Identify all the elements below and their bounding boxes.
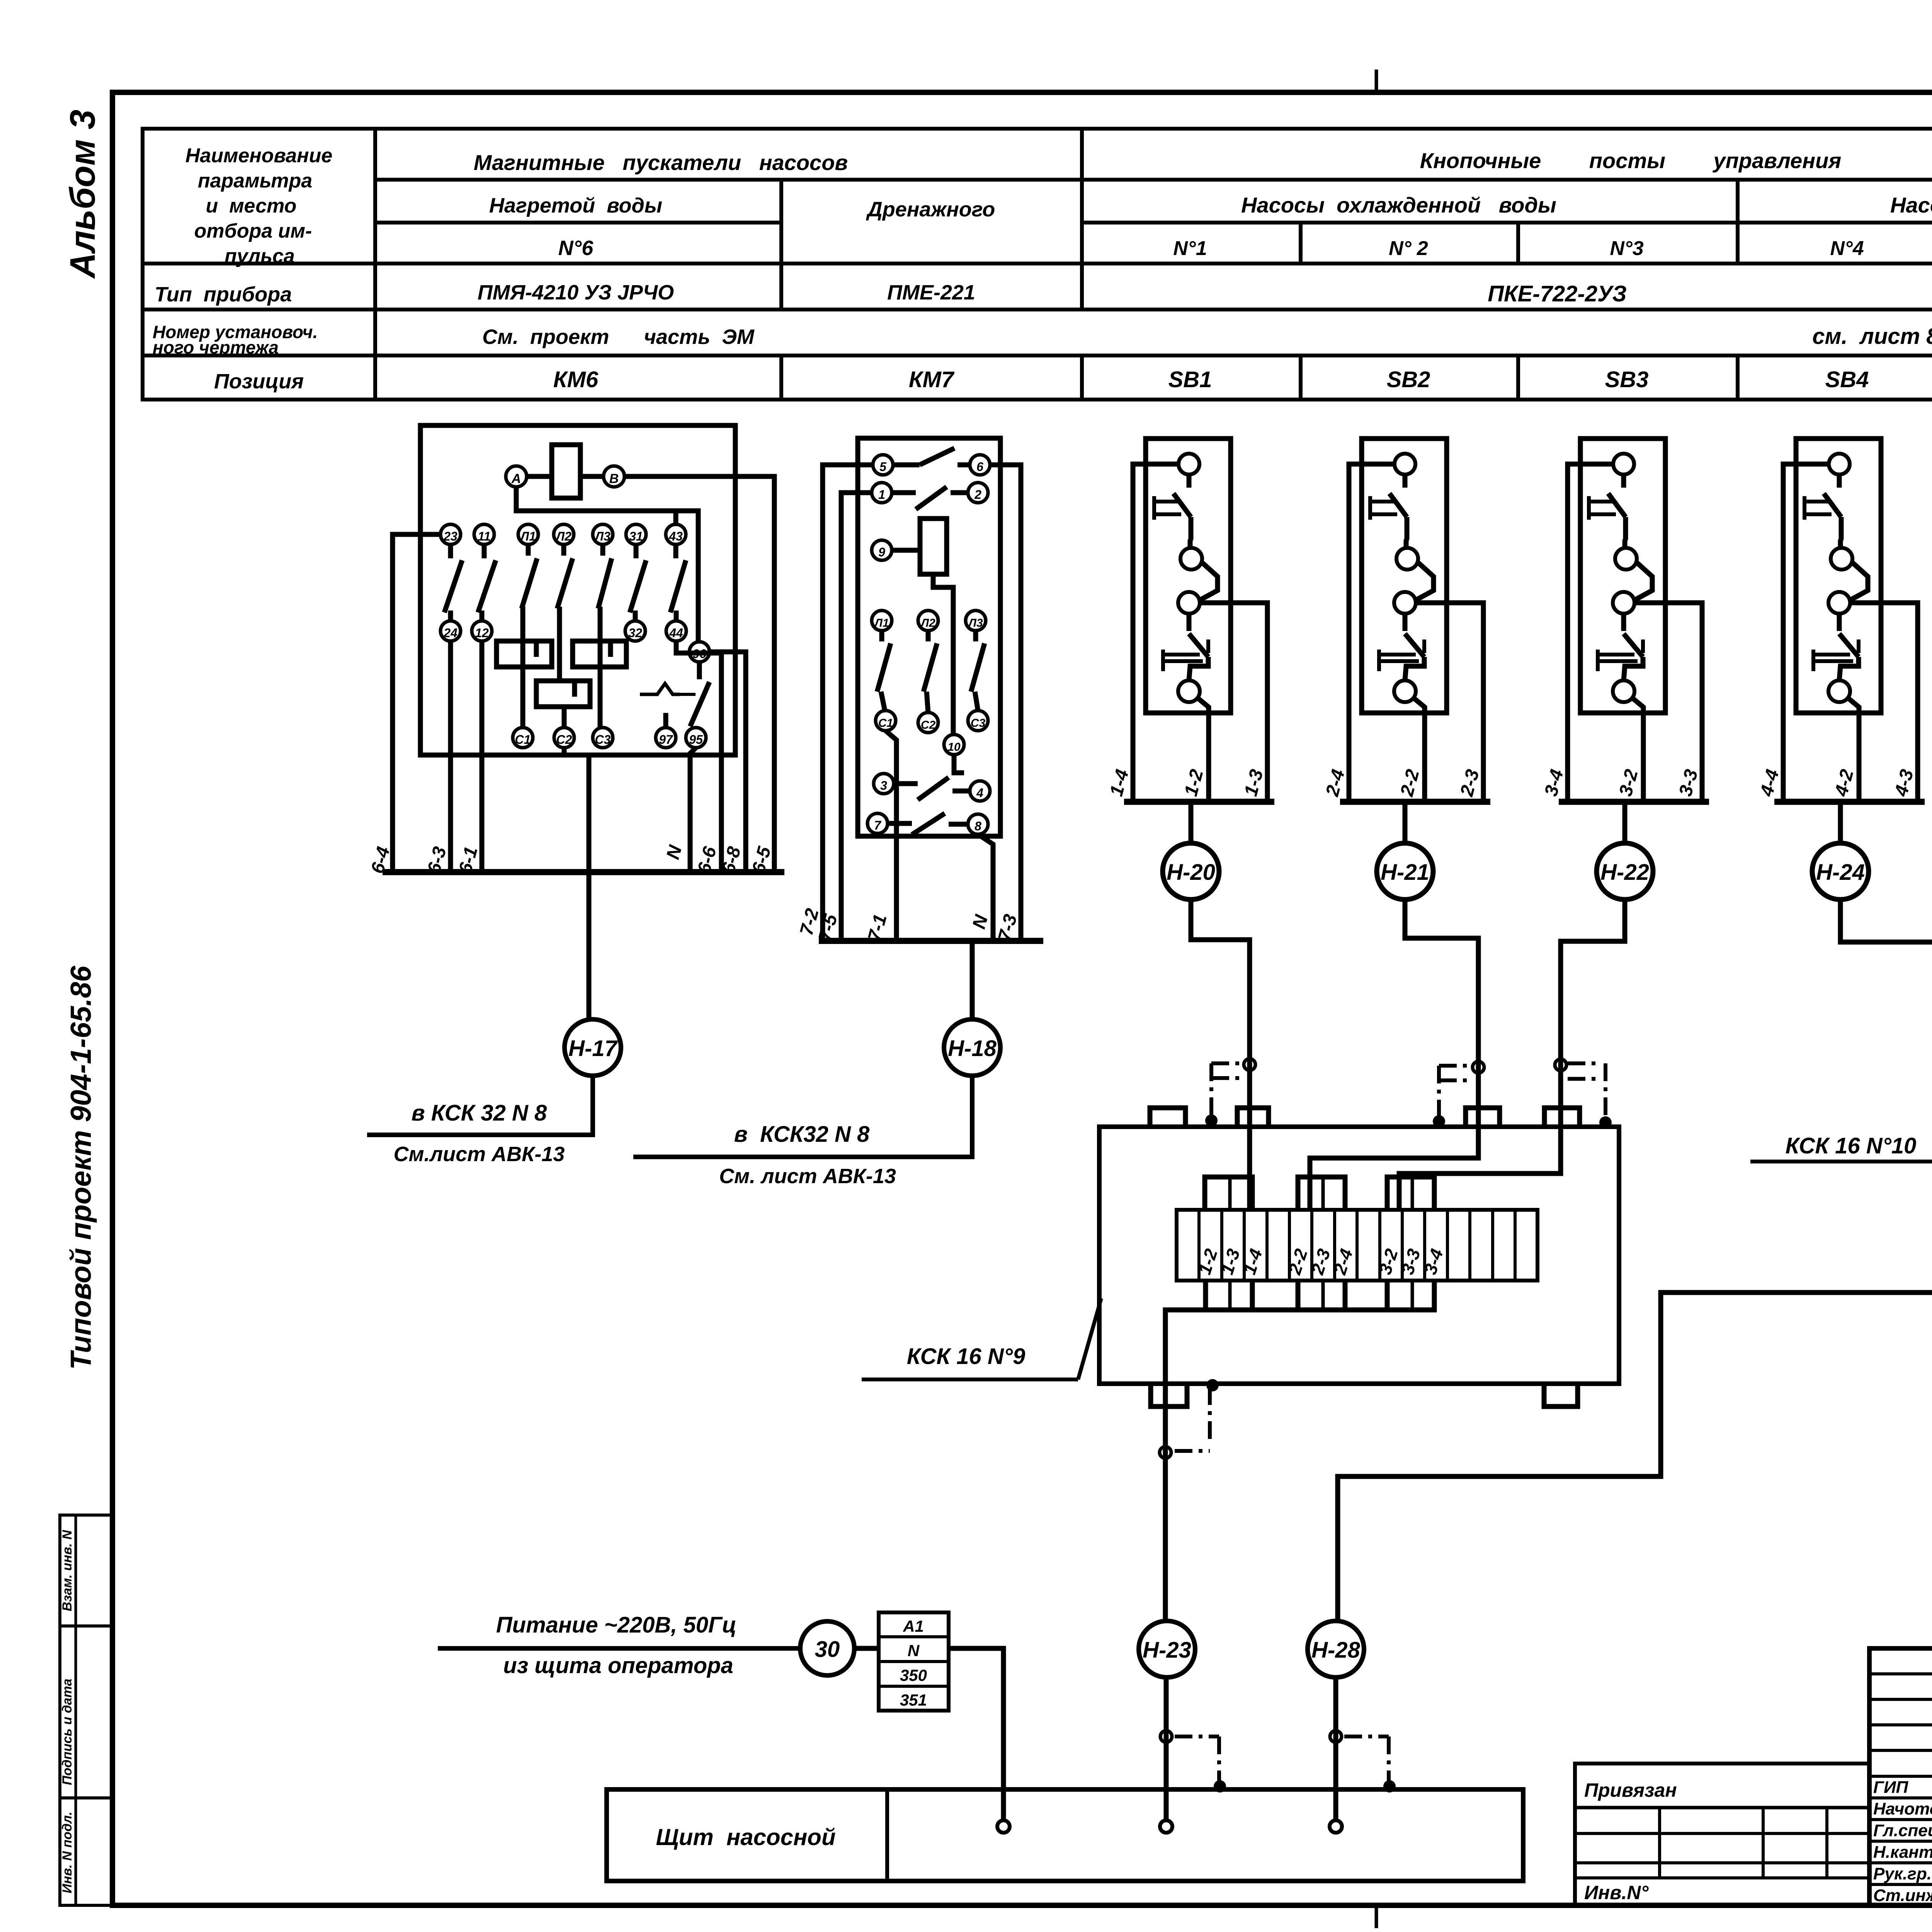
svg-text:Подпись и дата: Подпись и дата — [60, 1679, 75, 1785]
SB1 top terminal — [1179, 454, 1199, 474]
impulse lamp Н-24 — [1838, 802, 1843, 843]
SB2 link wire — [1417, 562, 1434, 600]
KM6 down wire 24 — [448, 641, 453, 872]
impulse lamp H-18 — [944, 1019, 1000, 1076]
KSK16 N9 collector wire — [1165, 1310, 1435, 1384]
KM6 down wire 12 — [480, 641, 485, 872]
KM7 terminal 10 — [944, 735, 964, 755]
svg-text:350: 350 — [900, 1666, 927, 1684]
SB3 middle terminal lower — [1613, 592, 1634, 614]
power terminal box A1 N 350 351 — [879, 1612, 949, 1711]
svg-text:ГИП: ГИП — [1873, 1778, 1909, 1797]
H-22 shield dash-dot — [1568, 1061, 1600, 1065]
KM7 contact 7-8 — [888, 821, 912, 826]
SB4 middle terminal lower — [1828, 592, 1850, 614]
wire H-22 to KSK16 N9 — [1399, 900, 1625, 1210]
svg-text:Привязан: Привязан — [1584, 1779, 1677, 1801]
svg-text:10: 10 — [947, 741, 961, 753]
svg-text:Инв. N подл.: Инв. N подл. — [60, 1811, 75, 1893]
SB2 bus bar — [1340, 799, 1490, 805]
wire H-21 to KSK16 N9 — [1310, 900, 1478, 1210]
button post SB3 box — [1580, 439, 1665, 713]
KM6 pole L1-C1 — [526, 544, 531, 556]
SB4 right wire 4-3 — [1850, 603, 1918, 802]
SB3 NO lower link — [1624, 657, 1643, 680]
svg-text:Рук.гр.: Рук.гр. — [1873, 1864, 1932, 1883]
svg-text:отбора им-: отбора им- — [194, 220, 312, 242]
KM7 terminal L2 — [918, 611, 938, 631]
SB3 link wire — [1635, 562, 1652, 600]
svg-text:1: 1 — [878, 488, 885, 502]
parameter table outline — [143, 129, 1932, 400]
wire H-20 to KSK16 N9 — [1191, 900, 1250, 1210]
KSK16 N9 strip bottom tabs group2 — [1298, 1281, 1345, 1310]
wire H-23 to board — [1164, 1677, 1169, 1821]
SB3 middle terminal upper — [1615, 548, 1637, 570]
SB4 bus bar — [1774, 799, 1925, 805]
SB2 bottom terminal — [1394, 680, 1416, 702]
svg-text:SB2: SB2 — [1387, 367, 1430, 392]
H-23 shield pickoff circle — [1160, 1447, 1171, 1458]
svg-text:С3: С3 — [595, 733, 611, 747]
KSK16 N9 strip top tabs group2 — [1298, 1177, 1345, 1210]
SB4 NO button actuator — [1811, 650, 1815, 671]
SB3 bottom terminal — [1613, 680, 1634, 702]
svg-text:С1: С1 — [515, 733, 531, 747]
svg-text:97: 97 — [659, 733, 673, 747]
SB4 NO contact blade — [1837, 614, 1842, 631]
svg-text:N: N — [908, 1641, 920, 1660]
fold mark bottom center — [1375, 1905, 1378, 1928]
table column line 3 — [1080, 129, 1084, 310]
svg-text:N: N — [969, 912, 992, 931]
wire A to thermal contact 96 — [516, 487, 698, 642]
svg-text:в КСК32 N 8: в КСК32 N 8 — [734, 1122, 870, 1147]
svg-text:3-3: 3-3 — [1675, 767, 1702, 798]
svg-text:31: 31 — [629, 529, 643, 543]
KSK16 N9 terminal strip — [1177, 1210, 1537, 1281]
KM6 terminal 97 — [656, 728, 676, 748]
KM6 thermal element 1 — [497, 641, 552, 667]
SB4 top terminal — [1829, 454, 1850, 474]
KM6 contact 23-24 — [448, 544, 453, 558]
SB3 top terminal — [1613, 454, 1634, 474]
svg-text:N°4: N°4 — [1830, 237, 1864, 260]
SB2 middle terminal upper — [1396, 548, 1418, 570]
KM6 terminal A — [506, 466, 527, 487]
H-23 shield dash-dot at box — [1175, 1449, 1210, 1453]
svg-text:Л3: Л3 — [594, 529, 611, 543]
svg-text:Н-18: Н-18 — [948, 1036, 997, 1061]
SB3 bottom exit wire 3-2 — [1632, 698, 1643, 802]
KM7 terminal 4 — [970, 781, 990, 801]
power feed wire to terminal box — [854, 1646, 879, 1651]
left margin stamp strip — [60, 1515, 112, 1905]
svg-text:32: 32 — [628, 626, 642, 640]
button post SB2 box — [1362, 439, 1447, 713]
svg-text:N° 2: N° 2 — [1389, 237, 1428, 260]
wire 9 to coil — [892, 548, 920, 553]
table row line under group headers — [375, 178, 1932, 182]
SB1 bottom exit wire 1-2 — [1197, 698, 1209, 802]
H-22 shield pickoff circle — [1555, 1059, 1566, 1071]
KM6 bus bar — [383, 869, 784, 875]
svg-text:7: 7 — [874, 818, 882, 832]
SB2 NO button actuator — [1377, 650, 1381, 671]
svg-text:Н-28: Н-28 — [1311, 1638, 1360, 1663]
KM6 pole L3-C3 — [600, 544, 605, 556]
H-28 shield dash-dot low — [1344, 1735, 1389, 1738]
KM6 contact 31-32 — [634, 544, 639, 558]
svg-text:Л1: Л1 — [520, 529, 536, 543]
svg-text:Н-23: Н-23 — [1143, 1638, 1191, 1663]
svg-text:N°6: N°6 — [558, 236, 594, 260]
KM6 thermal contact 95-96 — [697, 662, 702, 679]
wire coil to B — [580, 474, 604, 479]
svg-text:См.лист АВК-13: См.лист АВК-13 — [394, 1143, 565, 1166]
H-28 terminal circle — [1330, 1820, 1342, 1833]
H-23 shield dash-dot low — [1175, 1735, 1219, 1738]
SB2 NC contact blade — [1403, 474, 1408, 488]
KM7 pole L1-C1 — [879, 631, 884, 641]
KM7 terminal 7 — [867, 813, 888, 833]
SB4 link wire — [1851, 562, 1868, 600]
svg-text:Ст.инж: Ст.инж — [1873, 1886, 1932, 1905]
svg-text:N°3: N°3 — [1610, 237, 1643, 260]
KM7 terminal L1 — [872, 611, 892, 631]
signature table grid — [1869, 1648, 1932, 1906]
SB4 bottom exit wire 4-2 — [1848, 698, 1859, 802]
svg-text:Начотд.: Начотд. — [1873, 1799, 1932, 1818]
pump board Shchit nasosnoy — [607, 1789, 1523, 1881]
KM6 terminal 12 — [472, 621, 492, 641]
svg-text:парамьтра: парамьтра — [198, 170, 312, 192]
svg-text:1-4: 1-4 — [1106, 767, 1133, 799]
svg-text:1-2: 1-2 — [1180, 767, 1207, 798]
KM7 contact 3-4 — [894, 781, 918, 786]
svg-text:КМ7: КМ7 — [909, 367, 955, 392]
svg-text:Н.кантр.: Н.кантр. — [1873, 1843, 1932, 1862]
KM7 terminal 2 — [968, 483, 988, 503]
svg-text:Л3: Л3 — [968, 617, 983, 629]
SB3 left wire 3-4 — [1568, 464, 1613, 802]
power feed wire to pump board — [949, 1648, 1003, 1821]
svg-text:в КСК 32 N 8: в КСК 32 N 8 — [412, 1100, 547, 1126]
svg-text:24: 24 — [443, 626, 457, 640]
svg-text:3: 3 — [880, 779, 887, 793]
KM7 terminal L3 — [966, 611, 986, 631]
H-21 shield dash-dot — [1439, 1064, 1471, 1068]
SB4 NC button actuator — [1803, 496, 1806, 520]
table row line under tip pribora — [143, 308, 1932, 311]
KM6 down wire 95 N — [690, 748, 696, 872]
svg-text:N°1: N°1 — [1173, 237, 1207, 260]
KM6 terminal 32 — [625, 621, 645, 641]
svg-text:6: 6 — [976, 460, 983, 474]
SB1 right wire 1-3 — [1200, 603, 1267, 802]
svg-text:Щит насосной: Щит насосной — [656, 1824, 835, 1850]
power feed terminal circle — [997, 1820, 1010, 1833]
fold mark top center — [1375, 70, 1378, 92]
KM6 terminal Л1 — [518, 524, 538, 544]
SB4 bottom terminal — [1828, 680, 1850, 702]
H-22 shield ground dot — [1599, 1116, 1612, 1129]
table row line under nomer chertezha — [143, 354, 1932, 357]
KM7 left exit wire 1 — [841, 493, 872, 941]
svg-text:КСК 16 N°9: КСК 16 N°9 — [907, 1344, 1026, 1369]
SB3 bus bar — [1559, 799, 1709, 805]
svg-text:Наименование: Наименование — [185, 145, 333, 167]
KSK16 N9 top mounting tab 4 — [1544, 1108, 1580, 1127]
SB4 middle terminal upper — [1831, 548, 1852, 570]
svg-text:9: 9 — [878, 545, 885, 559]
H-23 shield dot at box — [1206, 1379, 1219, 1391]
svg-text:Питание ~220В, 50Гц: Питание ~220В, 50Гц — [496, 1612, 736, 1638]
svg-text:Нагретой воды: Нагретой воды — [489, 194, 662, 217]
svg-text:С3: С3 — [971, 717, 986, 730]
SB1 NC button actuator — [1152, 496, 1156, 520]
KM6 terminal 24 — [440, 621, 461, 641]
svg-text:Н-22: Н-22 — [1600, 860, 1649, 885]
svg-text:5: 5 — [879, 460, 887, 474]
svg-text:ПМЯ-4210 УЗ JРЧО: ПМЯ-4210 УЗ JРЧО — [478, 281, 674, 304]
SB1 NO contact blade — [1187, 614, 1192, 631]
SB4 NO lower link — [1839, 657, 1859, 680]
SB1 link wire — [1201, 562, 1218, 600]
svg-text:и место: и место — [206, 195, 297, 217]
SB2 NC button actuator — [1368, 496, 1372, 520]
power feed circle 30 — [800, 1621, 854, 1675]
KM6 terminal 11 — [474, 524, 494, 544]
KM6 thermal element 2 — [573, 641, 626, 667]
KM7 terminal 1 — [872, 483, 892, 503]
title block outline — [1869, 1648, 1932, 1906]
svg-text:ПКЕ-722-2УЗ: ПКЕ-722-2УЗ — [1488, 281, 1627, 306]
wire coil down to 10 — [933, 574, 953, 735]
table row line under sub headers — [375, 221, 781, 224]
svg-text:12: 12 — [475, 626, 489, 640]
svg-text:11: 11 — [478, 529, 490, 543]
KM7 terminal C3 — [968, 711, 988, 731]
svg-text:Н-21: Н-21 — [1381, 860, 1429, 885]
KSK16 N9 bottom mounting tab 2 — [1544, 1384, 1578, 1406]
KM7 pole L2-C2 — [926, 631, 931, 641]
svg-text:См. лист АВК-13: См. лист АВК-13 — [719, 1165, 896, 1188]
impulse lamp H-28 — [1308, 1621, 1364, 1677]
svg-text:С2: С2 — [921, 719, 936, 731]
svg-text:23: 23 — [443, 529, 457, 543]
impulse lamp H-17 — [565, 1019, 621, 1076]
KM7 down wire N — [978, 834, 993, 941]
SB1 middle terminal upper — [1180, 548, 1202, 570]
svg-text:SB4: SB4 — [1825, 367, 1869, 392]
KM7 terminal 3 — [874, 774, 894, 794]
svg-text:Гл.спец.: Гл.спец. — [1873, 1821, 1932, 1840]
H-20 shield pickoff circle — [1244, 1059, 1255, 1070]
svg-text:См. проект часть ЭМ: См. проект часть ЭМ — [482, 325, 755, 349]
SB1 bus bar — [1124, 799, 1274, 805]
H-21 shield pickoff circle — [1473, 1061, 1484, 1073]
svg-text:Позиция: Позиция — [214, 370, 304, 393]
table column line 1 — [373, 129, 377, 400]
KM7 right exit wire 6 — [990, 465, 1021, 941]
KM6 terminal 31 — [626, 524, 646, 544]
SB2 bottom exit wire 2-2 — [1413, 698, 1425, 802]
SB4 NC contact blade — [1837, 474, 1842, 488]
H-20 shield dash-dot — [1211, 1061, 1243, 1065]
table column line 5 — [1516, 223, 1520, 264]
SB2 NO contact blade — [1403, 614, 1408, 631]
KSK16 N9 bottom mounting tab 1 — [1151, 1384, 1187, 1406]
SB1 middle terminal lower — [1178, 592, 1200, 614]
KM7 wire 10 to 4 link — [954, 755, 964, 773]
svg-text:Тип прибора: Тип прибора — [155, 283, 292, 306]
svg-text:Насосы нагретой воды: Насосы нагретой воды — [1890, 193, 1932, 217]
KM7 left exit wire 5 — [823, 465, 873, 941]
H-21 shield ground dot — [1433, 1115, 1445, 1128]
wire H-24 to KSK16 N10 — [1840, 900, 1932, 1084]
KSK16 N9 top mounting tab 3 — [1466, 1108, 1500, 1127]
KM6 down wire 44 — [676, 641, 721, 872]
KM6 thermal element 3 — [536, 681, 590, 707]
KM7 down wire 7-1 — [886, 731, 896, 941]
KM6 coil — [552, 445, 580, 498]
svg-text:Взам. инв. N: Взам. инв. N — [60, 1529, 75, 1611]
KM7 terminal C2 — [918, 713, 938, 733]
KSK16 N9 strip top tabs group3 — [1387, 1177, 1434, 1210]
svg-text:Типовой проект 904-1-65.86: Типовой проект 904-1-65.86 — [65, 965, 97, 1370]
KSK16 N9 strip bottom tabs group1 — [1206, 1281, 1252, 1310]
svg-text:SB3: SB3 — [1605, 367, 1649, 392]
wire H-18 down to KSK32 — [633, 1076, 972, 1157]
table column line 6 — [1736, 180, 1740, 264]
contactor KM6 box — [420, 425, 735, 755]
svg-text:4-2: 4-2 — [1831, 767, 1857, 799]
junction box KSK16 N9 — [1099, 1127, 1619, 1384]
H-28 shield pickoff circle low — [1330, 1731, 1342, 1742]
KM6 contact 11-12 — [482, 544, 487, 558]
KM6 terminal 95 — [686, 728, 706, 748]
KM7 pole L3-C3 — [973, 631, 978, 641]
svg-text:пульса: пульса — [224, 245, 295, 267]
table column line 2 — [779, 180, 783, 310]
KM6 terminal 44 — [666, 621, 686, 641]
SB3 NC button actuator — [1587, 496, 1591, 520]
KM7 terminal C1 — [876, 711, 896, 731]
KM6 down wire 96 — [709, 652, 746, 872]
svg-text:Л1: Л1 — [874, 617, 889, 629]
svg-text:3-4: 3-4 — [1541, 767, 1567, 799]
H-23 shield dot low — [1214, 1780, 1226, 1793]
button post SB4 box — [1796, 439, 1881, 713]
KM7 terminal 8 — [968, 814, 988, 834]
impulse lamp Н-21 — [1403, 802, 1408, 843]
H-28 shield dot low — [1383, 1780, 1396, 1793]
KM6 terminal B — [604, 466, 624, 487]
svg-text:ПМЕ-221: ПМЕ-221 — [887, 281, 975, 304]
KM7 terminal 5 — [873, 455, 893, 475]
svg-text:43: 43 — [668, 529, 683, 543]
wire branch to contact 43 — [673, 511, 679, 524]
KM6 terminal Л3 — [593, 524, 613, 544]
svg-text:Магнитные пускатели насосо: Магнитные пускатели насосов — [474, 150, 848, 175]
impulse lamp Н-20 — [1189, 802, 1194, 843]
SB1 bottom terminal — [1178, 680, 1200, 702]
svg-text:2-3: 2-3 — [1456, 767, 1483, 799]
SB2 top terminal — [1395, 454, 1415, 474]
wire A to coil — [527, 474, 552, 479]
svg-text:А: А — [511, 471, 521, 486]
svg-text:ного чертежа: ного чертежа — [153, 337, 279, 357]
KSK16 N9 strip bottom tabs group3 — [1387, 1281, 1434, 1310]
KM6 down wire C2 to H-17 — [587, 755, 592, 1019]
SB1 NO button actuator — [1161, 650, 1165, 671]
SB3 NO button actuator — [1596, 650, 1600, 671]
impulse lamp H-23 — [1139, 1621, 1195, 1677]
KM6 left exit wire 23 — [393, 534, 440, 872]
KM6 pole L2-C2 — [561, 544, 566, 556]
SB4 left wire 4-4 — [1783, 464, 1829, 802]
svg-text:см. лист 86: см. лист 86 — [1812, 324, 1932, 349]
svg-text:В: В — [609, 471, 619, 486]
svg-text:Н-24: Н-24 — [1816, 860, 1865, 885]
svg-text:Насосы охлажденной воды: Насосы охлажденной воды — [1241, 193, 1556, 217]
svg-text:Л2: Л2 — [920, 617, 935, 629]
svg-text:4-3: 4-3 — [1891, 767, 1917, 799]
wire KSK16 N9 to H-23 — [1163, 1384, 1168, 1621]
KSK16 N9 top mounting tab 2 — [1237, 1108, 1269, 1127]
SB3 NO contact blade — [1621, 614, 1626, 631]
svg-text:8: 8 — [975, 819, 981, 833]
svg-text:Кнопочные посты: Кнопочные посты управления — [1420, 148, 1841, 173]
SB1 NO lower link — [1189, 657, 1208, 680]
svg-text:SB1: SB1 — [1168, 367, 1212, 392]
KM6 terminal С1 — [513, 728, 533, 748]
KM6 terminal 23 — [440, 524, 461, 544]
KM7 coil — [920, 519, 947, 574]
KM6 wire 97 stub — [663, 713, 668, 728]
impulse lamp Н-22 — [1622, 802, 1628, 843]
SB1 left wire 1-4 — [1133, 464, 1179, 802]
SB2 NO lower link — [1405, 657, 1424, 680]
KSK16 N9 top mounting tab 1 — [1150, 1108, 1185, 1127]
svg-text:из щита оператора: из щита оператора — [503, 1653, 733, 1678]
SB2 middle terminal lower — [1394, 592, 1416, 614]
svg-text:4-4: 4-4 — [1756, 767, 1783, 799]
svg-text:КСК 16 N°10: КСК 16 N°10 — [1786, 1133, 1917, 1158]
svg-text:Л2: Л2 — [555, 529, 571, 543]
KM7 contact 1-2 — [892, 490, 916, 495]
svg-text:1-3: 1-3 — [1240, 767, 1267, 798]
KM7 terminal 6 — [970, 455, 990, 475]
wire H-17 down to KSK32 — [367, 1076, 593, 1135]
svg-text:N: N — [663, 843, 686, 861]
svg-text:Н-17: Н-17 — [568, 1036, 618, 1061]
svg-text:Н-20: Н-20 — [1167, 860, 1215, 885]
KM7 bus bar — [819, 938, 1043, 944]
svg-text:Дренажного: Дренажного — [866, 198, 995, 221]
KM6 terminal 43 — [666, 524, 686, 544]
svg-text:3-2: 3-2 — [1615, 767, 1642, 798]
svg-text:КМ6: КМ6 — [553, 367, 599, 392]
svg-text:44: 44 — [669, 626, 683, 640]
svg-text:2: 2 — [974, 488, 981, 502]
KM6 terminal С3 — [593, 728, 613, 748]
H-20 shield ground dot — [1205, 1114, 1218, 1127]
KM7 terminal 9 — [872, 540, 892, 560]
KM6 terminal Л2 — [554, 524, 574, 544]
svg-text:2-4: 2-4 — [1322, 767, 1349, 799]
